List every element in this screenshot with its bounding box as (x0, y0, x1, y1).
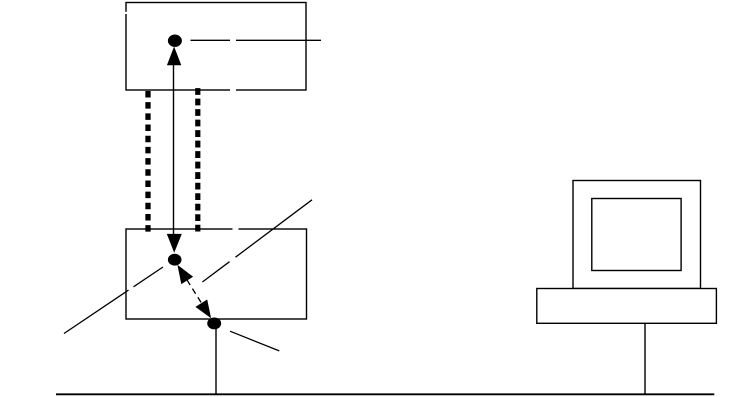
lower box (receiver) (126, 229, 307, 319)
computer stand wire to bottom bus (644, 323, 646, 394)
arrowhead down (at node B) (167, 234, 182, 253)
arrowhead toward node B (177, 265, 193, 284)
diagonal line upper-right segment 2 (236, 200, 313, 257)
thick dashed line right (195, 88, 200, 233)
computer screen inner (592, 199, 681, 271)
seam gap on top box left edge (125, 12, 128, 14)
seam gap on lower box top edge (233, 227, 239, 231)
dashed double arrow shaft between B and C (187, 280, 202, 303)
short diagonal line from node C (230, 331, 279, 351)
bottom bus line (56, 393, 714, 395)
computer base (537, 289, 717, 324)
wire from node A to the right (191, 39, 231, 41)
node dot C (207, 318, 221, 330)
diagonal line lower-left segment 1 (64, 290, 129, 333)
arrowhead toward node C (195, 300, 211, 319)
thick dashed line left (145, 91, 150, 233)
diagonal line upper-right segment 1 (202, 262, 229, 282)
seam gap on top box bottom edge (230, 88, 236, 91)
wire from node A to the right (after seam) (236, 39, 321, 41)
node dot B (168, 254, 182, 266)
arrowhead up (at node A) (167, 47, 181, 66)
vertical double-headed arrow shaft (173, 63, 175, 236)
drop wire from node C to bottom bus (215, 323, 217, 394)
computer monitor outer (573, 181, 701, 289)
diagonal line lower-left segment 2 (134, 267, 164, 287)
node dot A (168, 35, 182, 47)
top box (sender) (126, 3, 306, 91)
